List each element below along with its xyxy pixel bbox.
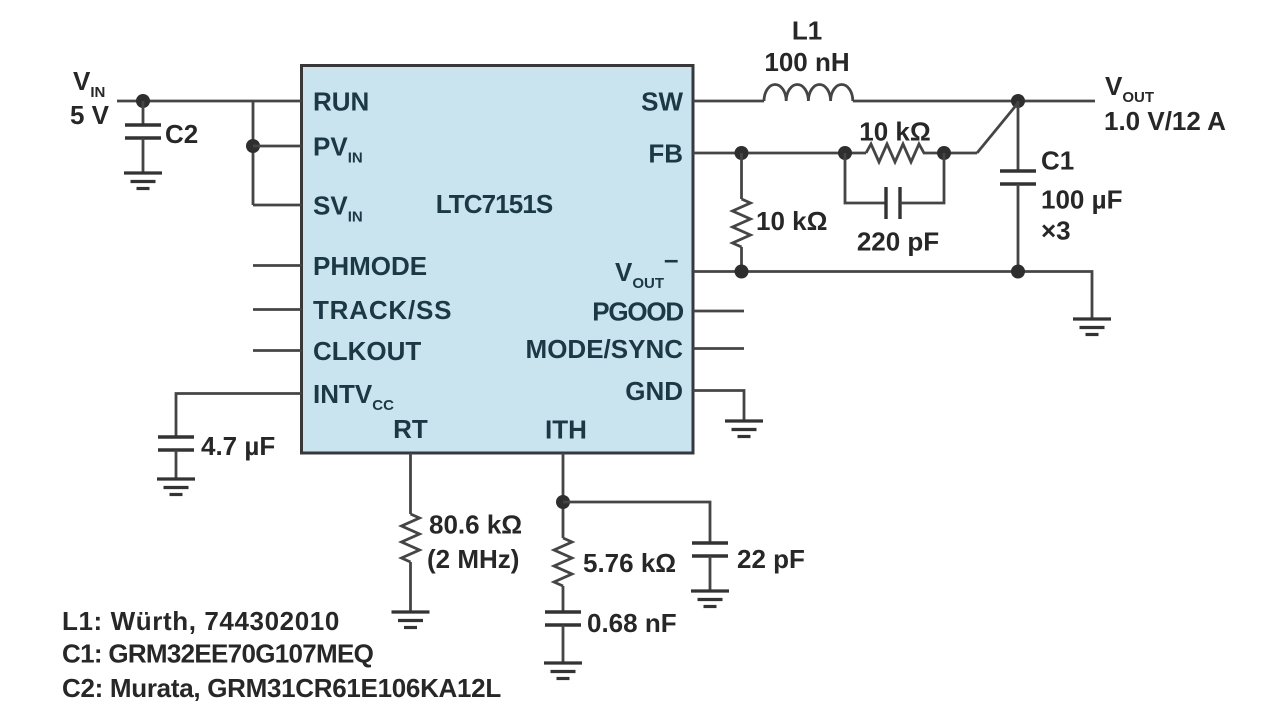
capacitor C1 top lead (1017, 101, 1020, 171)
svg-text:10 kΩ: 10 kΩ (859, 117, 930, 147)
capacitor 220pF loop right (900, 153, 944, 203)
svg-text:MODE/SYNC: MODE/SYNC (526, 334, 684, 364)
wire ITH to 22pF (563, 502, 710, 543)
wire diagonal to VOUT node (977, 103, 1018, 153)
wire VOUT- rail (693, 272, 1092, 320)
resistor 10k feedback top (866, 144, 925, 162)
capacitor 0.68nF bottom lead (562, 625, 565, 663)
wire RT resistor to ground (409, 562, 412, 612)
capacitor C1 bottom lead (1017, 184, 1020, 272)
node junction VIN (136, 94, 150, 108)
svg-text:L1: Würth, 744302010: L1: Würth, 744302010 (62, 606, 340, 636)
capacitor C1 (1000, 171, 1036, 184)
wire PGOOD stub (693, 310, 744, 313)
svg-text:VIN: VIN (73, 66, 105, 101)
wire feedback resistor right (925, 152, 977, 155)
wire INTVCC to bypass cap (176, 394, 302, 438)
svg-text:5.76 kΩ: 5.76 kΩ (583, 548, 676, 578)
svg-text:TRACK/SS: TRACK/SS (313, 295, 452, 325)
svg-text:SW: SW (641, 87, 683, 117)
capacitor 220pF (886, 187, 900, 219)
svg-text:×3: ×3 (1041, 216, 1071, 246)
svg-text:4.7 µF: 4.7 µF (201, 431, 275, 461)
wire GND pin (693, 391, 744, 422)
capacitor 220pF loop left (845, 153, 886, 203)
node junction feedback left (838, 146, 852, 160)
node junction PVIN (246, 139, 260, 153)
svg-text:C2: Murata, GRM31CR61E106KA12L: C2: Murata, GRM31CR61E106KA12L (62, 673, 501, 703)
ground at GND pin (725, 421, 763, 437)
op-amp U1 LTC7151S IC body (302, 66, 694, 454)
wire FB to divider (693, 152, 866, 155)
wire 5.76k to 0.68nF (562, 586, 565, 612)
ground below 4.7uF (157, 479, 195, 495)
node junction ITH (556, 495, 570, 509)
svg-text:C1: C1 (1041, 146, 1074, 176)
ground below RT resistor (392, 612, 430, 628)
ground below VOUT- rail (1073, 319, 1111, 335)
svg-text:C1: GRM32EE70G107MEQ: C1: GRM32EE70G107MEQ (62, 639, 374, 669)
svg-text:VOUT: VOUT (1105, 71, 1154, 106)
node junction VOUT- left (735, 265, 749, 279)
svg-text:CLKOUT: CLKOUT (313, 336, 421, 366)
svg-text:5 V: 5 V (70, 100, 110, 130)
capacitor C2 bottom lead (142, 138, 145, 173)
svg-text:RT: RT (393, 414, 428, 444)
wire to SVIN (253, 204, 302, 207)
svg-text:220 pF: 220 pF (857, 227, 939, 257)
wire to PVIN (253, 145, 302, 148)
node junction feedback right (937, 146, 951, 160)
node junction FB divider (735, 146, 749, 160)
svg-text:GND: GND (625, 376, 683, 406)
svg-text:PGOOD: PGOOD (592, 297, 683, 327)
wire MODE/SYNC stub (693, 347, 744, 350)
svg-text:RUN: RUN (313, 87, 369, 117)
capacitor 0.68nF (545, 612, 581, 625)
wire VIN branch vertical to SVIN (252, 101, 255, 205)
svg-text:LTC7151S: LTC7151S (436, 189, 553, 219)
svg-text:100 µF: 100 µF (1041, 185, 1122, 215)
svg-text:100 nH: 100 nH (764, 47, 849, 77)
svg-text:10 kΩ: 10 kΩ (756, 206, 827, 236)
node junction VOUT (1011, 94, 1025, 108)
svg-text:0.68 nF: 0.68 nF (587, 608, 677, 638)
ground below 22pF (691, 591, 729, 607)
svg-text:1.0 V/12 A: 1.0 V/12 A (1104, 106, 1226, 136)
resistor 10k lower divider (733, 153, 751, 272)
capacitor 22pF (692, 543, 728, 556)
wire SW to inductor (693, 100, 764, 103)
svg-text:(2 MHz): (2 MHz) (427, 544, 519, 574)
wire ITH lead (562, 453, 565, 538)
wire VIN stub (117, 100, 143, 103)
capacitor C2 (125, 125, 161, 138)
wire inductor to VOUT (853, 100, 1095, 103)
svg-text:FB: FB (648, 139, 683, 169)
svg-text:PHMODE: PHMODE (313, 251, 427, 281)
wire VIN to RUN (143, 100, 302, 103)
node junction VOUT- right (1011, 265, 1025, 279)
svg-text:22 pF: 22 pF (737, 544, 805, 574)
capacitor C2 top lead (142, 101, 145, 125)
svg-text:L1: L1 (792, 16, 822, 46)
ground below C2 (124, 173, 162, 189)
wire TRACK/SS stub (253, 308, 302, 311)
wire RT lead (409, 453, 412, 514)
svg-text:C2: C2 (165, 119, 198, 149)
resistor 80.6k RT (402, 514, 420, 562)
ground below 0.68nF (544, 663, 582, 679)
resistor 5.76k (554, 538, 572, 586)
svg-text:80.6 kΩ: 80.6 kΩ (429, 510, 522, 540)
capacitor 4.7uF bottom lead (175, 450, 178, 479)
wire PHMODE stub (253, 264, 302, 267)
svg-text:ITH: ITH (545, 415, 587, 445)
wire CLKOUT stub (253, 349, 302, 352)
capacitor 22pF bottom lead (709, 556, 712, 591)
capacitor 4.7uF (158, 437, 194, 450)
inductor L1 (764, 84, 853, 101)
